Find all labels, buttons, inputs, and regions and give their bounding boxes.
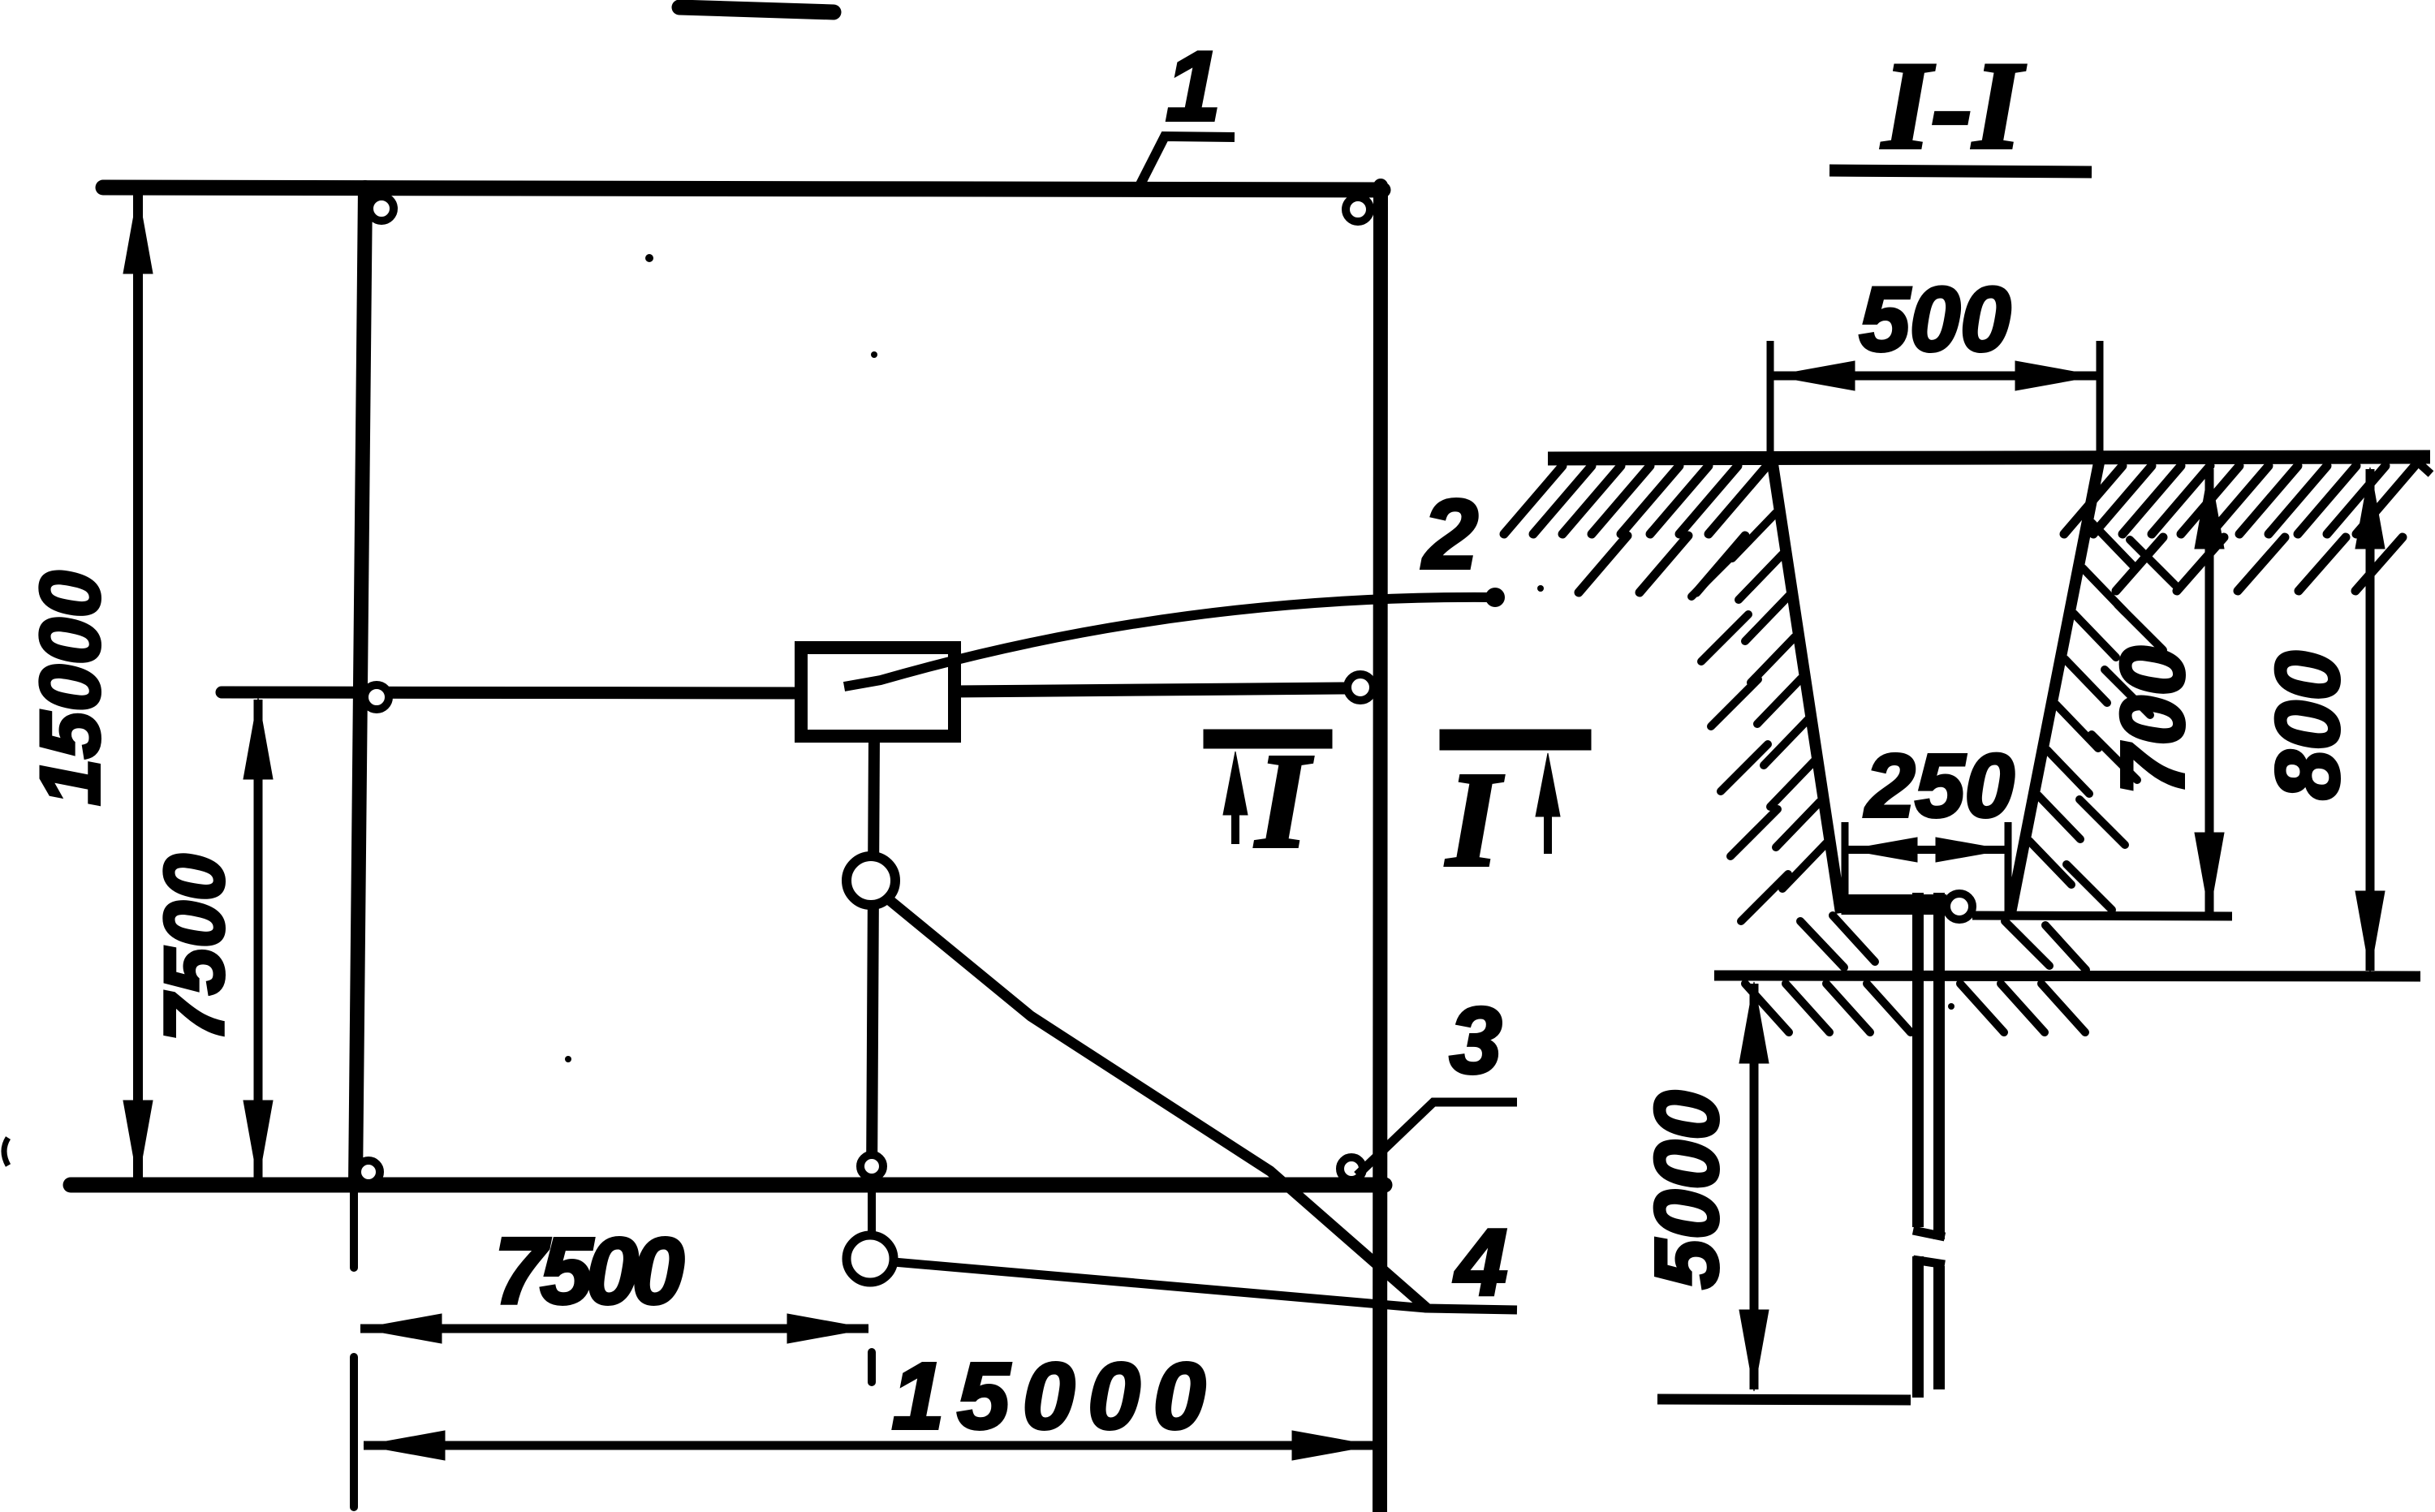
dimension line 500 <box>1773 372 2097 381</box>
node: top-right corner <box>1346 197 1370 222</box>
wire: top side of loop <box>103 187 1383 190</box>
leader for label 3 <box>1357 1102 1517 1175</box>
section mark right: bar <box>1440 730 1591 750</box>
dimension line 7500 (horizontal bottom) <box>360 1325 868 1333</box>
diagonal lead from junction to label 4 <box>890 901 1426 1307</box>
section title underline <box>1829 170 2092 172</box>
node: bottom-left corner <box>357 1161 380 1183</box>
earth electrode rod upper part <box>1912 893 1924 1227</box>
node: middle-left <box>364 685 389 709</box>
soil hatching <box>1504 466 2415 1032</box>
svg-text:800: 800 <box>2258 651 2358 800</box>
svg-text:1: 1 <box>1166 31 1221 141</box>
ground line end tick <box>2415 459 2431 474</box>
ground surface line <box>1548 457 2430 459</box>
scan speckles <box>565 254 1954 1062</box>
leader for label 2 (to antenna wire) <box>844 597 1492 687</box>
title underline (cropped) <box>679 7 834 12</box>
connection box <box>801 648 955 736</box>
junction: electrode below bottom wire <box>847 1235 894 1282</box>
section mark right: arrow <box>1544 773 1552 854</box>
dimension line 250 <box>1848 846 2005 854</box>
dimension line 15000 (vertical, far left) <box>133 194 143 1181</box>
dimension line 15000 (horizontal bottom) <box>364 1441 1373 1450</box>
svg-text:250: 250 <box>1864 736 2015 836</box>
trench wall left <box>1772 459 1841 913</box>
wire: right side of loop <box>1380 186 1381 1512</box>
svg-text:7500: 7500 <box>494 1218 684 1324</box>
wire: bottom side of loop <box>71 1178 1385 1193</box>
svg-text:I: I <box>1445 744 1504 895</box>
wire: left side of loop <box>356 187 365 1185</box>
trench wall right <box>2010 459 2100 913</box>
section mark left: bar <box>1204 730 1332 748</box>
svg-text:500: 500 <box>1860 269 2011 370</box>
svg-text:5000: 5000 <box>1637 1091 1737 1290</box>
section mark left: arrow <box>1231 771 1239 844</box>
svg-text:4: 4 <box>1454 1209 1508 1315</box>
earth electrode rod lower part <box>1912 1256 1924 1398</box>
dimension line 800 <box>2366 469 2375 971</box>
lower ground reference line (800) <box>1714 976 2420 976</box>
wire: middle horizontal left segment <box>222 692 802 693</box>
stray bracket mark at left margin <box>4 1138 8 1165</box>
svg-text:2: 2 <box>1421 479 1478 589</box>
svg-text:700: 700 <box>2103 646 2203 795</box>
svg-text:15000: 15000 <box>24 571 118 805</box>
clamp circle at electrode top <box>1946 894 1972 920</box>
junction: earth electrode junction on centre wire <box>847 856 895 905</box>
extension line below left side <box>350 1185 358 1268</box>
terminal dot of leader 2 <box>1485 588 1505 607</box>
svg-text:15000: 15000 <box>892 1343 1219 1449</box>
node: top-left corner <box>369 196 394 221</box>
wire: middle horizontal right segment <box>954 688 1345 691</box>
svg-text:3: 3 <box>1450 988 1502 1093</box>
extension line below centre vertical <box>868 1185 876 1273</box>
node: bottom-right corner <box>1340 1157 1363 1180</box>
leader for label 1 <box>1140 136 1235 186</box>
earthing strip at trench bottom <box>1844 894 1946 915</box>
dimension line 700 <box>2205 469 2214 912</box>
trench bottom reference line (700) <box>1972 915 2232 916</box>
svg-text:I: I <box>1254 726 1313 877</box>
node: middle-right <box>1347 674 1373 700</box>
electrode bottom reference line <box>1657 1399 1911 1400</box>
witness lines for 500 <box>1767 341 1774 467</box>
dimension line 7500 (vertical) <box>254 700 263 1181</box>
svg-text:7500: 7500 <box>148 854 242 1041</box>
svg-text:I-I: I-I <box>1881 36 2026 175</box>
node: bottom-middle <box>860 1155 883 1178</box>
wire: centre vertical from box down <box>872 735 874 1185</box>
dimension line 5000 <box>1750 984 1759 1389</box>
leader for label 4 from lower electrode <box>894 1262 1517 1310</box>
witness lines for 250 <box>1842 822 1849 915</box>
